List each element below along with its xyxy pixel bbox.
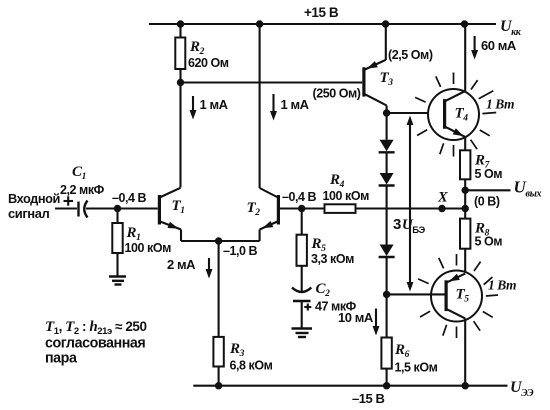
resistor R1	[112, 209, 171, 277]
diode D1	[379, 140, 395, 153]
junction dot top rail T4 collector	[461, 20, 468, 27]
transistor T5 circle	[431, 271, 482, 322]
junction dot top rail T3 emitter	[382, 20, 389, 27]
resistor R7	[460, 150, 502, 190]
transistor T4 circle	[428, 89, 479, 140]
wire T1 collector	[179, 83, 181, 188]
junction dot top rail R2	[177, 20, 184, 27]
current arrow 1 mA left	[190, 96, 229, 120]
svg-text:Входной: Входной	[8, 191, 60, 206]
junction dot rail T5 collector	[462, 382, 469, 389]
resistor R3	[213, 241, 272, 386]
note text T1 T2 matched pair	[45, 319, 147, 367]
ground under R1	[109, 277, 126, 285]
wire C2 to ground	[301, 301, 303, 329]
junction dot rail R6	[383, 382, 390, 389]
resistor R4	[323, 172, 370, 213]
junction dot tail	[215, 237, 222, 244]
junction dot X column	[462, 205, 469, 212]
svg-text:100 кОм: 100 кОм	[323, 189, 370, 203]
svg-text:–0,4 В: –0,4 В	[282, 190, 317, 204]
resistor R6	[381, 294, 437, 385]
wire diode string top	[386, 113, 388, 140]
svg-text:100 кОм: 100 кОм	[125, 241, 172, 255]
svg-text:3,3 кОм: 3,3 кОм	[311, 252, 354, 266]
svg-text:1 мА: 1 мА	[281, 97, 310, 112]
svg-text:10 мА: 10 мА	[338, 310, 374, 325]
wire T2 base to R4 node	[280, 207, 325, 209]
svg-text:+15 В: +15 В	[304, 5, 339, 20]
wire R2 to T3 base	[181, 81, 363, 83]
wire D1-D2	[386, 152, 388, 173]
wire output	[465, 189, 510, 191]
svg-text:(2,5 Ом): (2,5 Ом)	[388, 48, 433, 62]
rays around T4	[415, 73, 496, 157]
svg-text:–0,4 В: –0,4 В	[112, 191, 147, 205]
junction dot rail R3	[215, 382, 222, 389]
transistor T4	[443, 24, 468, 150]
svg-text:60 мА: 60 мА	[481, 38, 517, 53]
svg-text:2,2 мкФ: 2,2 мкФ	[60, 183, 105, 197]
node X dot	[438, 205, 445, 212]
svg-text:1 мА: 1 мА	[200, 97, 229, 112]
current arrow 2 mA	[167, 257, 213, 279]
resistor R2	[175, 24, 229, 83]
current arrow 1 mA right	[270, 94, 310, 121]
junction dot output	[462, 187, 469, 194]
transistor T1	[158, 188, 185, 241]
svg-text:(250 Ом): (250 Ом)	[313, 87, 361, 101]
svg-text:620 Ом: 620 Ом	[188, 56, 229, 70]
svg-text:1,5 кОм: 1,5 кОм	[395, 361, 438, 375]
wire T2 collector column	[259, 24, 261, 188]
wire input	[55, 207, 77, 209]
svg-text:6,8 кОм: 6,8 кОм	[230, 359, 273, 373]
svg-text:–1,0 В: –1,0 В	[223, 244, 258, 258]
transistor T3	[362, 24, 393, 113]
resistor R8	[460, 219, 502, 274]
capacitor C2	[292, 281, 357, 314]
wire +15V top rail	[149, 23, 496, 25]
svg-text:сигнал: сигнал	[8, 206, 49, 221]
resistor R5	[297, 209, 355, 293]
wire output column between dots	[464, 190, 466, 218]
svg-text:X: X	[437, 190, 448, 206]
junction dot T3 collector node	[383, 109, 390, 116]
svg-text:2 мА: 2 мА	[167, 257, 196, 272]
junction dot T5 base node	[383, 291, 390, 298]
transistor T5	[445, 274, 470, 386]
dimension arrow 3U_BE	[393, 116, 425, 292]
wire T5 base	[387, 293, 445, 295]
current arrow 10 mA	[338, 309, 380, 336]
junction dot T2 base node	[298, 205, 305, 212]
svg-text:5 Ом: 5 Ом	[475, 235, 503, 249]
svg-text:1 Вт: 1 Вт	[486, 97, 514, 112]
wire -15V bottom rail	[193, 385, 507, 387]
wire T3 collector to T4 base	[387, 112, 443, 114]
junction dot input node	[114, 205, 121, 212]
capacitor C1	[60, 164, 105, 218]
wire R4 to output column (node X)	[356, 207, 466, 209]
junction dot R2 bottom	[177, 79, 184, 86]
svg-text:5 Ом: 5 Ом	[475, 167, 503, 181]
ground under C2	[292, 329, 313, 338]
current arrow 60 mA	[471, 36, 517, 60]
wire D3 to T5 base node	[386, 257, 388, 294]
wire C1 to T1 base	[86, 207, 158, 209]
rays around T5	[418, 254, 498, 338]
junction dot top rail T2 collector	[256, 20, 263, 27]
svg-text:1 Вт: 1 Вт	[488, 278, 516, 293]
svg-text:–15 В: –15 В	[352, 391, 385, 406]
diode D2	[379, 173, 395, 186]
diode D3	[379, 245, 395, 258]
svg-text:(0 В): (0 В)	[474, 195, 500, 209]
wire tail	[181, 240, 260, 242]
wire D2-D3 crosses X wire	[386, 186, 388, 245]
transistor T2	[247, 188, 281, 241]
svg-text:пара: пара	[45, 351, 78, 367]
svg-text:согласованная: согласованная	[45, 336, 145, 352]
